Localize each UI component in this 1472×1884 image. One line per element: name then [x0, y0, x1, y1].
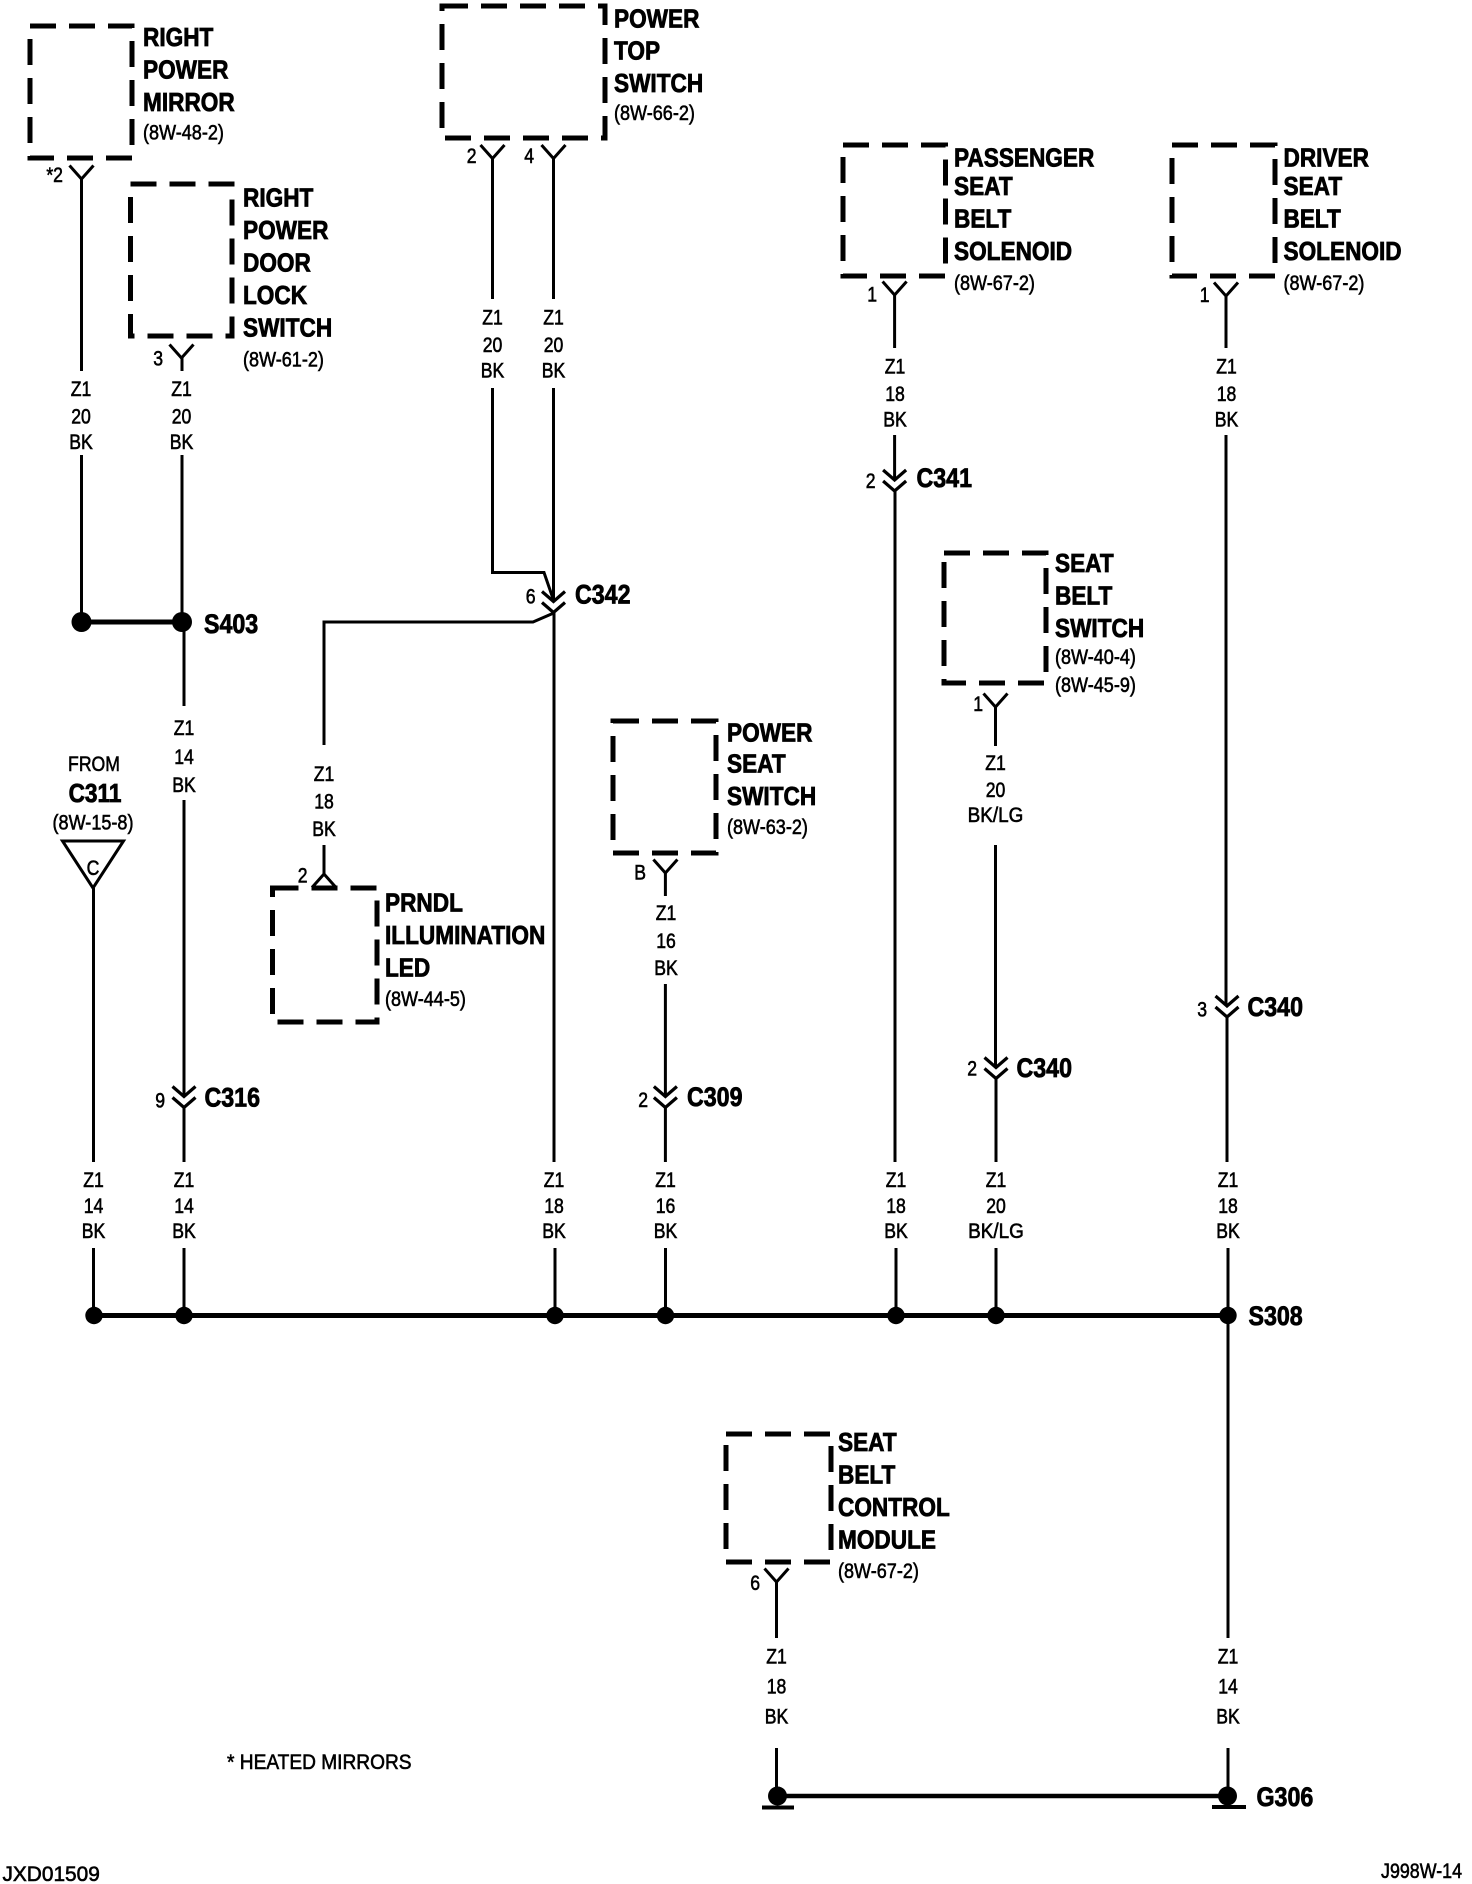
svg-text:Z1: Z1: [482, 306, 503, 330]
connector C311 (from 8W-15-8) terminal C: [53, 752, 134, 888]
component SEAT BELT CONTROL MODULE (8W-67-2): [726, 1429, 950, 1584]
svg-text:Z1: Z1: [1218, 1645, 1239, 1669]
wire Z1 18 BK C342 to S308: [554, 613, 555, 1316]
connector C340 pin 3: [1197, 992, 1303, 1022]
svg-text:PASSENGER: PASSENGER: [954, 144, 1095, 173]
svg-text:C309: C309: [687, 1082, 743, 1112]
svg-text:S308: S308: [1249, 1301, 1303, 1331]
component RIGHT POWER DOOR LOCK SWITCH (8W-61-2): [131, 184, 333, 372]
svg-text:Z1: Z1: [174, 1168, 195, 1192]
note HEATED MIRRORS: [227, 1751, 412, 1774]
wire label Z1 18 BK (above S308, col C342): [542, 1168, 566, 1243]
svg-text:Z1: Z1: [71, 377, 92, 401]
svg-text:J998W-14: J998W-14: [1381, 1860, 1462, 1884]
svg-text:SWITCH: SWITCH: [614, 70, 703, 99]
svg-text:Z1: Z1: [314, 762, 335, 786]
svg-text:BK: BK: [765, 1705, 789, 1729]
svg-text:PRNDL: PRNDL: [385, 889, 463, 918]
svg-text:Z1: Z1: [83, 1168, 104, 1192]
svg-text:LOCK: LOCK: [243, 282, 307, 311]
svg-text:2: 2: [967, 1057, 977, 1081]
wire label Z1 18 BK (above S308, col C341): [884, 1168, 908, 1243]
wire label Z1 20 BK (pin 4): [542, 306, 566, 383]
svg-text:18: 18: [314, 790, 334, 814]
svg-text:SOLENOID: SOLENOID: [1284, 238, 1402, 267]
svg-text:SOLENOID: SOLENOID: [954, 238, 1072, 267]
wire Z1 18 BK passenger solenoid to C341: [893, 295, 896, 479]
wire label Z1 14 BK (above S308, col C316): [172, 1168, 196, 1243]
svg-text:20: 20: [172, 405, 192, 429]
wire label Z1 18 BK (above S308, col driver): [1216, 1168, 1240, 1243]
connector C309 pin 2: [638, 1082, 742, 1112]
wire Z1 14 BK C316 to S308: [183, 1108, 186, 1316]
svg-text:Z1: Z1: [543, 306, 564, 330]
component PASSENGER SEAT BELT SOLENOID (8W-67-2): [843, 144, 1095, 295]
svg-text:2: 2: [638, 1088, 648, 1112]
svg-text:JXD01509: JXD01509: [3, 1863, 100, 1884]
svg-text:6: 6: [526, 585, 536, 609]
wire Z1 18 BK branch from C342 to PRNDL LED: [324, 613, 554, 874]
wire Z1 20 BK/LG seat belt switch to C340: [994, 707, 997, 1067]
svg-text:C: C: [87, 856, 100, 880]
svg-text:3: 3: [153, 347, 163, 371]
svg-text:Z1: Z1: [544, 1168, 565, 1192]
wire Z1 16 BK pin B to C309: [664, 873, 667, 1096]
svg-text:3: 3: [1197, 998, 1207, 1022]
pin 6 of SEAT BELT CONTROL MODULE: [750, 1569, 788, 1596]
figure number J998W-14: [1381, 1860, 1462, 1884]
svg-text:Z1: Z1: [766, 1645, 787, 1669]
svg-text:Z1: Z1: [885, 355, 906, 379]
pin 1 of SEAT BELT SWITCH: [973, 692, 1007, 716]
svg-text:SWITCH: SWITCH: [1055, 615, 1144, 644]
component POWER TOP SWITCH (8W-66-2): [442, 5, 703, 138]
wire label Z1 18 BK (driver): [1215, 355, 1239, 432]
wire Z1 20 BK/LG C340 to S308: [995, 1078, 998, 1316]
svg-text:CONTROL: CONTROL: [838, 1494, 950, 1523]
wire label Z1 14 BK (S308 to G306): [1216, 1645, 1240, 1729]
component DRIVER SEAT BELT SOLENOID (8W-67-2): [1172, 144, 1402, 295]
svg-text:18: 18: [767, 1675, 787, 1699]
wire Z1 18 BK module to G306: [775, 1582, 778, 1796]
svg-text:G306: G306: [1257, 1782, 1314, 1812]
svg-text:2: 2: [467, 144, 477, 168]
pin 3 of RIGHT POWER DOOR LOCK SWITCH: [153, 345, 193, 371]
connector C340 pin 2: [967, 1053, 1072, 1083]
svg-text:C311: C311: [69, 780, 122, 809]
svg-text:1: 1: [867, 283, 877, 307]
svg-text:LED: LED: [385, 954, 430, 983]
svg-text:BELT: BELT: [1055, 582, 1112, 611]
svg-text:16: 16: [656, 929, 676, 953]
svg-text:BK: BK: [172, 1219, 196, 1243]
svg-text:Z1: Z1: [1216, 355, 1237, 379]
svg-text:ILLUMINATION: ILLUMINATION: [385, 922, 545, 951]
svg-text:BK: BK: [542, 1219, 566, 1243]
svg-text:C340: C340: [1248, 992, 1304, 1022]
svg-text:(8W-63-2): (8W-63-2): [727, 816, 808, 840]
component SEAT BELT SWITCH (8W-40-4)(8W-45-9): [944, 550, 1144, 698]
svg-text:18: 18: [1218, 1194, 1238, 1218]
wire Z1 14 BK S403 to C316: [183, 622, 186, 1096]
svg-text:20: 20: [986, 778, 1006, 802]
svg-text:BK: BK: [884, 1219, 908, 1243]
svg-text:C316: C316: [205, 1083, 261, 1113]
svg-text:POWER: POWER: [143, 56, 229, 85]
wire label Z1 14 BK (above S308, col C311): [82, 1168, 106, 1243]
svg-text:(8W-45-9): (8W-45-9): [1055, 674, 1136, 698]
svg-text:Z1: Z1: [171, 377, 192, 401]
svg-text:BK: BK: [1216, 1219, 1240, 1243]
svg-text:14: 14: [174, 1194, 194, 1218]
svg-text:BK: BK: [82, 1219, 106, 1243]
svg-text:(8W-61-2): (8W-61-2): [243, 348, 324, 372]
svg-text:BK/LG: BK/LG: [968, 804, 1024, 827]
wire label Z1 20 BK (door lock): [170, 377, 194, 454]
svg-text:18: 18: [544, 1194, 564, 1218]
wire label Z1 18 BK (module): [765, 1645, 789, 1729]
svg-text:MODULE: MODULE: [838, 1526, 936, 1555]
svg-text:4: 4: [524, 144, 534, 168]
pin 1 of DRIVER SEAT BELT SOLENOID: [1200, 283, 1238, 308]
svg-text:2: 2: [298, 864, 308, 888]
wire Z1 18 BK C341 to S308: [895, 491, 896, 1316]
svg-text:BK: BK: [69, 430, 93, 454]
wire Z1 18 BK driver solenoid to C340: [1225, 296, 1228, 1005]
svg-text:C342: C342: [575, 580, 631, 610]
svg-text:BK: BK: [542, 359, 566, 383]
pin 4 of POWER TOP SWITCH: [524, 144, 565, 168]
svg-text:18: 18: [885, 382, 905, 406]
svg-text:20: 20: [986, 1194, 1006, 1218]
wire Z1 20 BK mirror to S403: [80, 179, 83, 622]
svg-text:Z1: Z1: [886, 1168, 907, 1192]
svg-text:(8W-67-2): (8W-67-2): [954, 272, 1035, 296]
wire label Z1 16 BK (pin B): [654, 901, 678, 980]
svg-text:18: 18: [886, 1194, 906, 1218]
svg-text:BK/LG: BK/LG: [968, 1220, 1024, 1243]
wire Z1 20 BK pin4 to C342: [552, 159, 555, 602]
wire Z1 20 BK door lock to S403: [181, 358, 184, 622]
svg-text:TOP: TOP: [614, 37, 660, 66]
svg-text:SEAT: SEAT: [727, 750, 786, 779]
svg-text:RIGHT: RIGHT: [243, 184, 313, 213]
svg-text:Z1: Z1: [985, 751, 1006, 775]
wire label Z1 20 BK/LG (above S308): [968, 1168, 1024, 1243]
svg-text:RIGHT: RIGHT: [143, 24, 213, 53]
svg-text:(8W-44-5): (8W-44-5): [385, 988, 466, 1012]
svg-text:Z1: Z1: [1218, 1168, 1239, 1192]
svg-text:20: 20: [544, 333, 564, 357]
svg-text:14: 14: [1218, 1675, 1238, 1699]
wire label Z1 20 BK/LG (switch): [968, 751, 1024, 827]
wire label Z1 14 BK (below S403): [172, 716, 196, 797]
svg-text:18: 18: [1217, 382, 1237, 406]
svg-text:SEAT: SEAT: [954, 173, 1013, 202]
svg-text:MIRROR: MIRROR: [143, 89, 235, 118]
wire Z1 16 BK C309 to S308: [664, 1108, 667, 1316]
wire Z1 14 BK C311 to S308: [92, 888, 95, 1316]
wire Z1 14 BK S308 to G306: [1227, 1316, 1230, 1797]
svg-text:Z1: Z1: [174, 716, 195, 740]
svg-text:BK: BK: [654, 956, 678, 980]
svg-text:BELT: BELT: [838, 1461, 895, 1490]
pin B of POWER SEAT SWITCH: [634, 860, 677, 885]
svg-text:(8W-67-2): (8W-67-2): [1284, 272, 1365, 296]
connector C342 pin 6: [526, 580, 631, 613]
svg-text:6: 6: [750, 1571, 760, 1595]
svg-text:S403: S403: [204, 609, 258, 639]
wire Z1 20 BK pin2 to C342: [493, 159, 554, 601]
figure number JXD01509: [3, 1863, 100, 1884]
svg-text:BK: BK: [883, 408, 907, 432]
svg-text:SEAT: SEAT: [1055, 550, 1114, 579]
svg-text:(8W-48-2): (8W-48-2): [143, 121, 224, 145]
svg-text:2: 2: [866, 469, 876, 493]
svg-text:(8W-15-8): (8W-15-8): [53, 811, 134, 835]
wire label Z1 20 BK (pin 2): [481, 306, 505, 383]
svg-text:(8W-67-2): (8W-67-2): [838, 1560, 919, 1584]
svg-text:16: 16: [656, 1194, 676, 1218]
svg-text:BK: BK: [654, 1219, 678, 1243]
wire label Z1 16 BK (above S308): [654, 1168, 678, 1243]
connector C341 pin 2: [866, 463, 972, 493]
svg-text:POWER: POWER: [243, 217, 329, 246]
wire Z1 18 BK C340 to S308: [1227, 1017, 1228, 1316]
svg-text:BK: BK: [1215, 408, 1239, 432]
pin 1 of PASSENGER SEAT BELT SOLENOID: [867, 282, 906, 307]
svg-text:* HEATED MIRRORS: * HEATED MIRRORS: [227, 1751, 412, 1774]
svg-text:(8W-66-2): (8W-66-2): [614, 102, 695, 126]
svg-text:SWITCH: SWITCH: [727, 783, 816, 812]
splice S308 bus: [85, 1301, 1302, 1331]
component PRNDL ILLUMINATION LED (8W-44-5): [273, 888, 546, 1022]
svg-text:1: 1: [1200, 283, 1210, 307]
ground G306: [762, 1782, 1313, 1812]
svg-text:Z1: Z1: [656, 901, 677, 925]
wire label Z1 18 BK (PRNDL branch): [312, 762, 336, 841]
component RIGHT POWER MIRROR (8W-48-2): [30, 24, 235, 158]
svg-text:SWITCH: SWITCH: [243, 314, 332, 343]
svg-text:BK: BK: [170, 430, 194, 454]
svg-text:B: B: [634, 861, 646, 885]
svg-text:C340: C340: [1017, 1053, 1073, 1083]
svg-text:BK: BK: [312, 817, 336, 841]
svg-text:Z1: Z1: [986, 1168, 1007, 1192]
pin 2 of POWER TOP SWITCH: [467, 144, 505, 168]
splice S403: [72, 609, 259, 639]
wire label Z1 20 BK (mirror): [69, 377, 93, 454]
pin 2 of PRNDL ILLUMINATION LED: [298, 864, 336, 888]
wire label Z1 18 BK (passenger): [883, 355, 907, 432]
connector C316 pin 9: [155, 1083, 260, 1113]
svg-text:FROM: FROM: [68, 752, 120, 776]
svg-text:BK: BK: [481, 359, 505, 383]
svg-text:SEAT: SEAT: [838, 1429, 897, 1458]
svg-text:SEAT: SEAT: [1284, 173, 1343, 202]
svg-text:14: 14: [84, 1194, 104, 1218]
svg-text:(8W-40-4): (8W-40-4): [1055, 646, 1136, 670]
svg-text:C341: C341: [917, 463, 973, 493]
svg-text:*2: *2: [46, 163, 63, 187]
svg-text:Z1: Z1: [655, 1168, 676, 1192]
svg-text:20: 20: [71, 405, 91, 429]
svg-text:BELT: BELT: [954, 205, 1011, 234]
component POWER SEAT SWITCH (8W-63-2): [613, 719, 816, 853]
svg-text:1: 1: [973, 692, 983, 716]
svg-text:BK: BK: [1216, 1705, 1240, 1729]
svg-text:BELT: BELT: [1284, 205, 1341, 234]
svg-text:POWER: POWER: [727, 719, 813, 748]
svg-text:20: 20: [483, 333, 503, 357]
svg-text:DOOR: DOOR: [243, 249, 311, 278]
svg-text:9: 9: [155, 1089, 165, 1113]
svg-text:POWER: POWER: [614, 5, 700, 34]
svg-text:DRIVER: DRIVER: [1284, 144, 1370, 173]
svg-text:BK: BK: [172, 773, 196, 797]
svg-text:14: 14: [174, 745, 194, 769]
pin *2 of RIGHT POWER MIRROR: [46, 163, 93, 187]
